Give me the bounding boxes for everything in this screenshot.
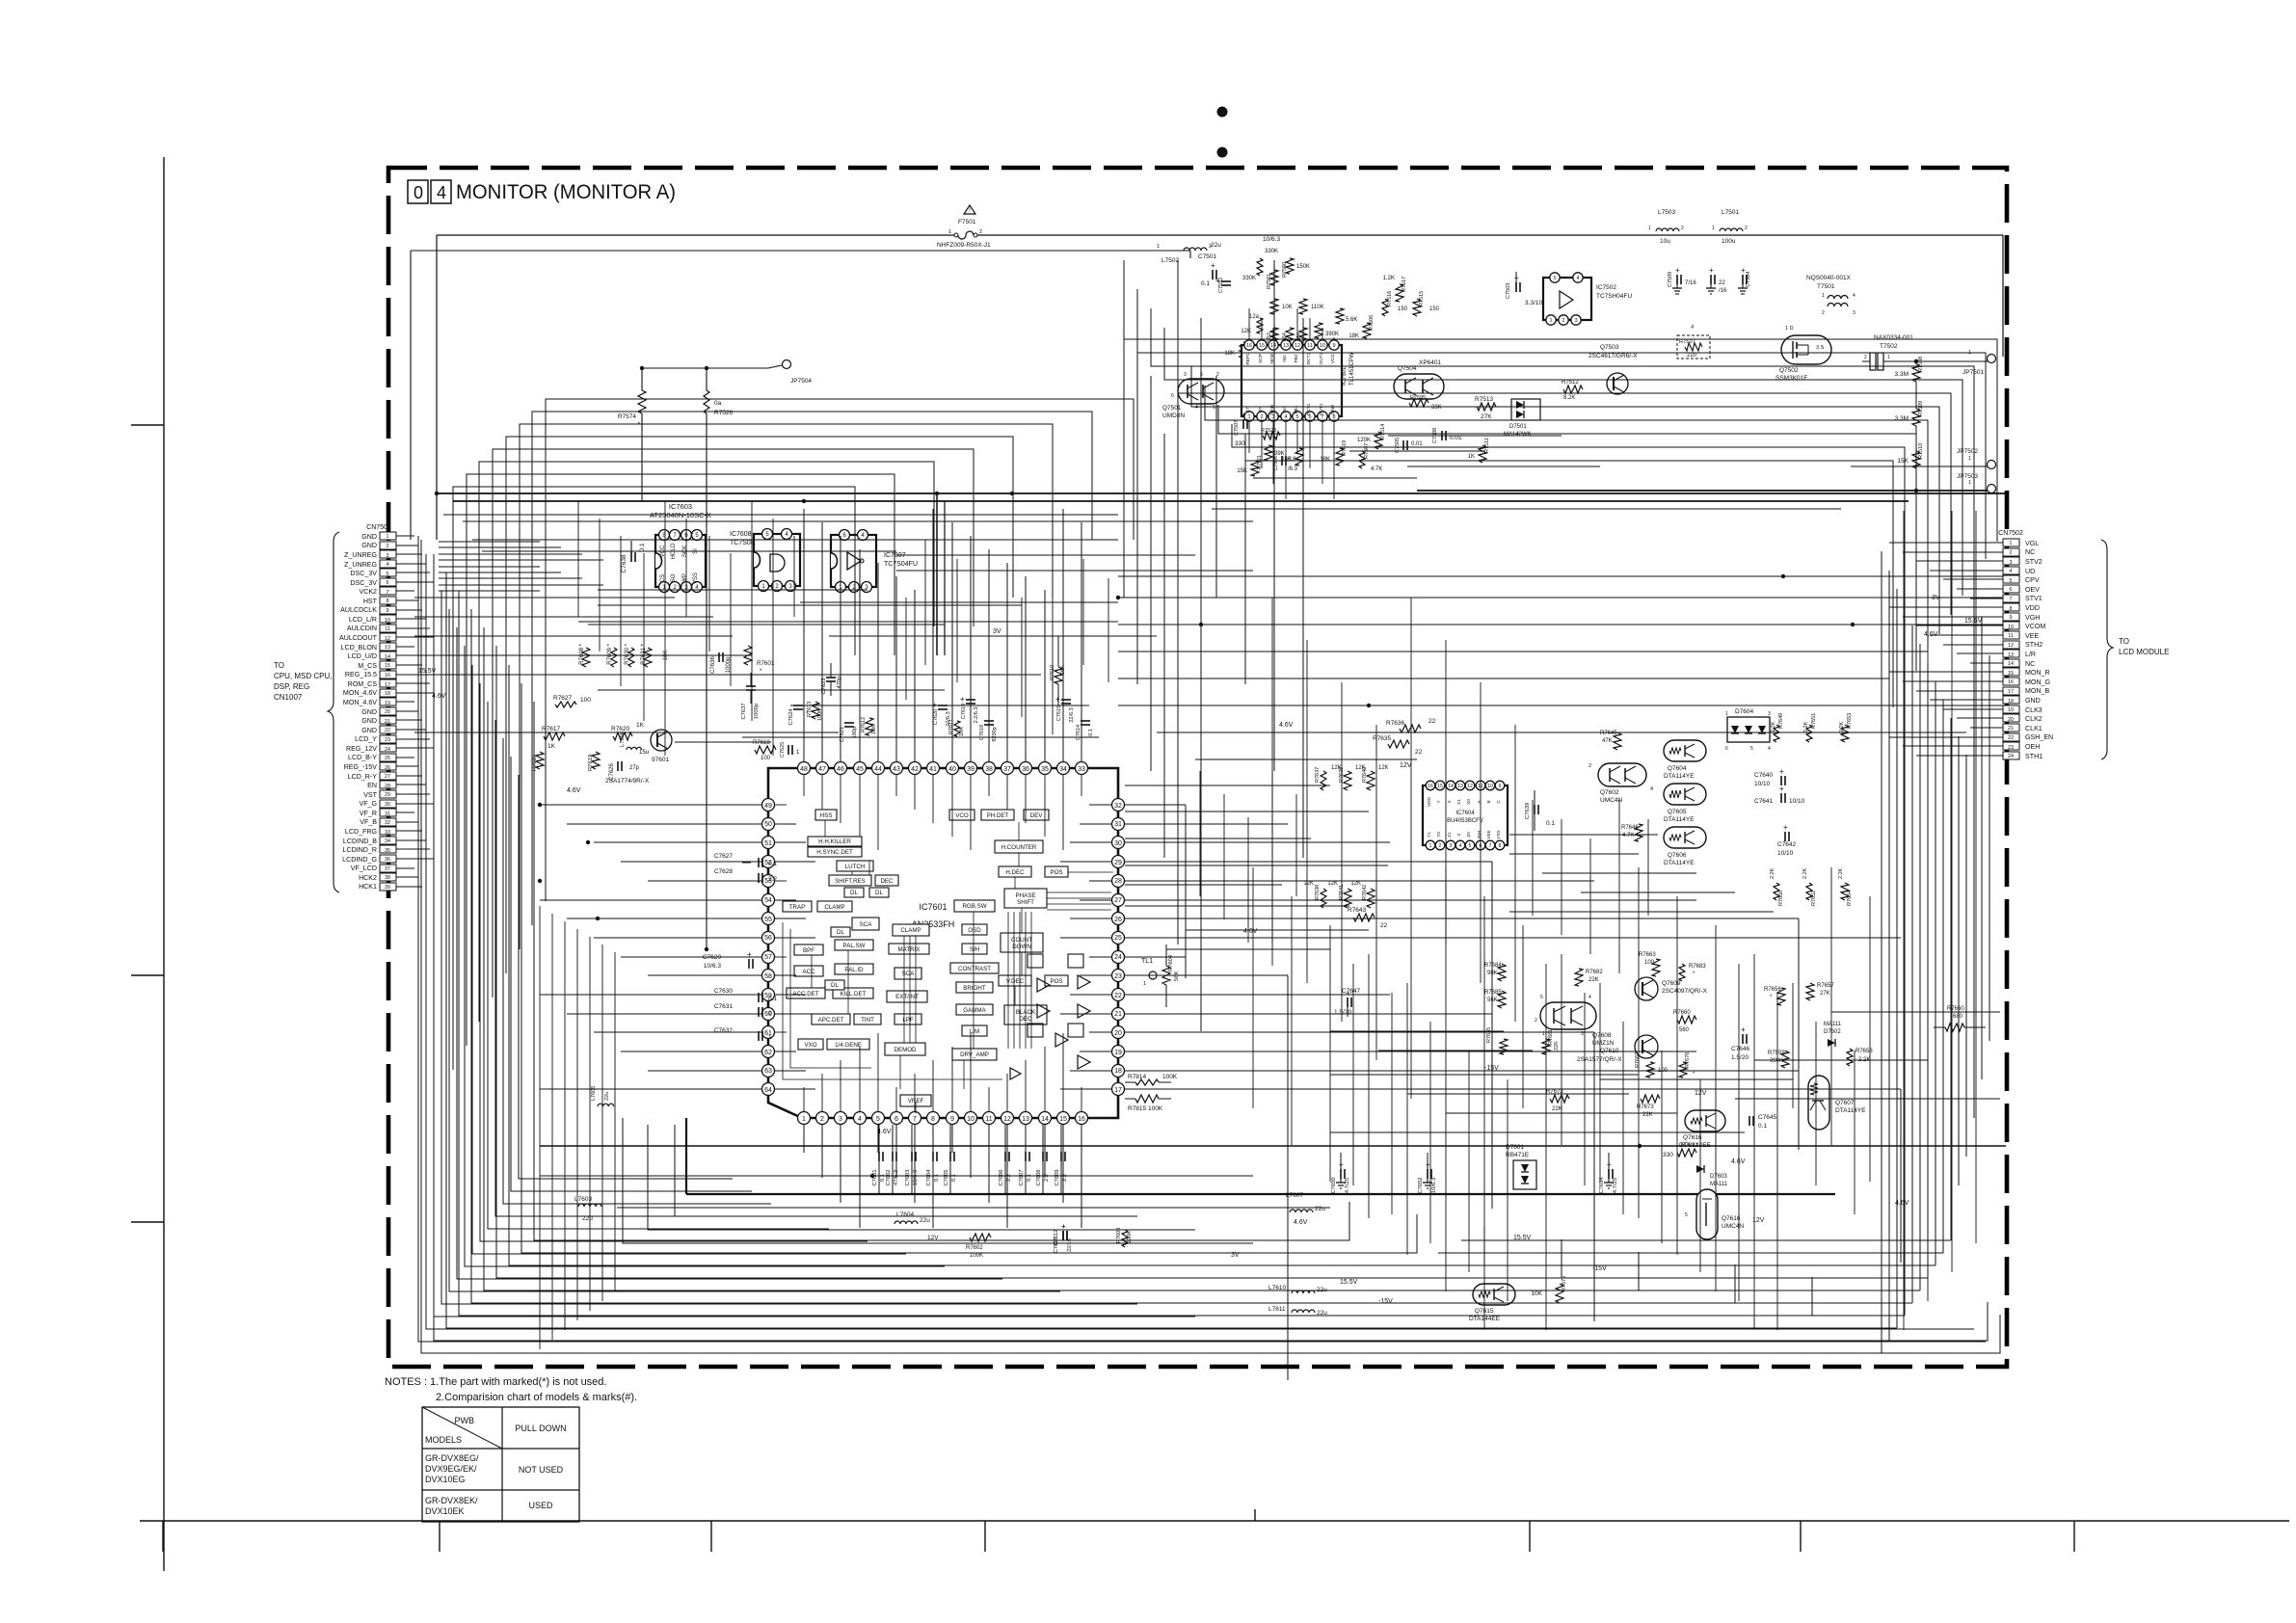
svg-text:0.1: 0.1 xyxy=(1088,729,1094,736)
svg-text:41: 41 xyxy=(929,766,937,773)
svg-text:8: 8 xyxy=(387,599,389,604)
svg-text:C7650: C7650 xyxy=(1331,1177,1337,1193)
svg-text:3V: 3V xyxy=(993,628,1001,635)
svg-text:C7602: C7602 xyxy=(886,1169,892,1185)
svg-text:22u: 22u xyxy=(1315,1206,1325,1212)
svg-text:C7614: C7614 xyxy=(1076,725,1081,740)
resistor R7613 xyxy=(812,702,819,719)
IC7601 internal amplifiers xyxy=(1037,978,1050,992)
wire middle rails right half xyxy=(1118,576,2003,759)
svg-text:150: 150 xyxy=(1398,306,1408,312)
capacitor C7510 xyxy=(1710,275,1712,284)
svg-text:23: 23 xyxy=(1114,973,1122,980)
op-amp IC7604 BU4053BCFV xyxy=(1423,785,1508,845)
svg-text:GR-DVX8EG/: GR-DVX8EG/ xyxy=(425,1453,479,1463)
svg-text:2: 2 xyxy=(1260,414,1263,420)
svg-text:C7604: C7604 xyxy=(926,1169,932,1186)
svg-text:CLAMP: CLAMP xyxy=(900,927,921,934)
svg-text:9: 9 xyxy=(2010,615,2013,621)
svg-text:Q7606: Q7606 xyxy=(1668,852,1687,859)
resistor R7563 110K xyxy=(1299,299,1307,314)
resistor R7616 xyxy=(536,752,544,769)
svg-text:C7605: C7605 xyxy=(944,1169,949,1185)
svg-text:SCA: SCA xyxy=(860,921,873,928)
transistor Q7615 DTA144EE xyxy=(1473,1284,1515,1305)
svg-text:OSD: OSD xyxy=(968,927,981,934)
svg-text:10K: 10K xyxy=(1531,1290,1542,1297)
transistor Q7607 DTA114YE xyxy=(1808,1076,1829,1130)
svg-text:C7645: C7645 xyxy=(1758,1114,1777,1121)
svg-text:R7609 *: R7609 * xyxy=(607,643,613,664)
svg-text:MON_R: MON_R xyxy=(2025,669,2050,677)
svg-text:VF_LCD: VF_LCD xyxy=(351,865,377,872)
svg-text:C7609: C7609 xyxy=(1055,1169,1060,1185)
svg-text:GR-DVX8EK/: GR-DVX8EK/ xyxy=(425,1496,478,1505)
resistor R7658 xyxy=(1847,1049,1853,1066)
svg-text:BLACK: BLACK xyxy=(1016,1009,1036,1016)
svg-text:55: 55 xyxy=(764,917,772,923)
svg-text:C7625: C7625 xyxy=(780,742,786,758)
svg-text:HST: HST xyxy=(363,598,378,605)
svg-text:R7652: R7652 xyxy=(1811,891,1817,906)
svg-text:BPF: BPF xyxy=(803,947,814,954)
svg-text:R7643: R7643 xyxy=(1348,907,1367,914)
svg-text:R7513: R7513 xyxy=(1475,396,1494,403)
svg-text:11: 11 xyxy=(385,626,390,632)
svg-text:47: 47 xyxy=(818,766,826,773)
svg-text:XP6401: XP6401 xyxy=(1419,359,1442,366)
resistor R7646 xyxy=(1635,824,1642,841)
svg-text:VF_R: VF_R xyxy=(360,810,377,817)
resistor R7511 xyxy=(1479,445,1486,463)
svg-text:12: 12 xyxy=(385,636,390,642)
svg-text:L7611: L7611 xyxy=(1268,1306,1286,1313)
svg-text:24: 24 xyxy=(1114,954,1122,961)
wire mid row rail xyxy=(742,736,1099,738)
svg-text:7: 7 xyxy=(2010,597,2013,602)
svg-text:C7639: C7639 xyxy=(1525,803,1531,819)
svg-text:6: 6 xyxy=(2010,587,2013,593)
svg-text:27: 27 xyxy=(385,774,390,780)
svg-text:110K: 110K xyxy=(1311,305,1324,310)
capacitor C7504 xyxy=(1742,275,1744,284)
svg-text:45: 45 xyxy=(856,766,864,773)
svg-text:0.01: 0.01 xyxy=(1411,441,1423,447)
svg-text:40: 40 xyxy=(948,766,956,773)
svg-text:4: 4 xyxy=(387,562,389,568)
svg-text:22K: 22K xyxy=(1589,977,1599,983)
capacitor C7628 xyxy=(758,873,760,883)
svg-text:11: 11 xyxy=(985,1116,992,1123)
svg-text:GND: GND xyxy=(361,708,377,716)
svg-text:LCD_B-Y: LCD_B-Y xyxy=(348,754,377,761)
svg-text:100: 100 xyxy=(761,756,771,761)
svg-text:R7660: R7660 xyxy=(1673,1010,1691,1016)
svg-text:/16: /16 xyxy=(1719,288,1727,294)
svg-text:6: 6 xyxy=(1725,746,1728,752)
svg-text:R7616: R7616 xyxy=(532,755,538,771)
svg-text:10/6.3: 10/6.3 xyxy=(704,963,721,970)
resistor R7566 18K xyxy=(1240,342,1247,358)
svg-text:29: 29 xyxy=(385,792,390,798)
resistor R7506 18K xyxy=(1363,323,1371,338)
svg-text:/6.3: /6.3 xyxy=(1288,466,1298,472)
svg-text:Q7607: Q7607 xyxy=(1835,1100,1855,1106)
svg-text:2: 2 xyxy=(1681,226,1684,231)
svg-text:27K: 27K xyxy=(1481,413,1492,420)
svg-text:JP7502: JP7502 xyxy=(1957,448,1978,455)
svg-text:32: 32 xyxy=(1114,803,1122,810)
resistor R7610 xyxy=(1055,667,1062,684)
svg-text:30: 30 xyxy=(1114,840,1122,847)
svg-text:LCD_L/R: LCD_L/R xyxy=(349,616,377,624)
capacitor C7506 xyxy=(1281,456,1283,466)
capacitor C7626 xyxy=(617,761,619,771)
svg-text:R7636: R7636 xyxy=(1386,720,1405,727)
extra rails xyxy=(443,514,1118,516)
svg-text:L/R: L/R xyxy=(2025,651,2036,658)
svg-text:10/10: 10/10 xyxy=(1777,850,1794,857)
svg-text:10/10: 10/10 xyxy=(1754,781,1771,787)
svg-text:1.2K: 1.2K xyxy=(1383,276,1395,281)
resistor R7642 xyxy=(1367,889,1375,908)
capacitor C7654 xyxy=(1608,1153,1610,1171)
svg-text:5: 5 xyxy=(1750,746,1753,752)
svg-text:AULCDIN: AULCDIN xyxy=(347,625,377,632)
svg-text:2.2/6.3: 2.2/6.3 xyxy=(974,707,979,724)
wire verticals center-right xyxy=(540,308,1841,1349)
resistor R7637 xyxy=(1321,771,1326,790)
jumper JP7501 xyxy=(1988,355,1996,363)
svg-text:DVX9EG/EK/: DVX9EG/EK/ xyxy=(425,1464,477,1474)
svg-text:CLK2: CLK2 xyxy=(2025,715,2042,723)
svg-text:0.1: 0.1 xyxy=(1758,1123,1767,1130)
capacitor C7630 xyxy=(758,993,760,1002)
svg-text:21: 21 xyxy=(1114,1011,1122,1018)
svg-text:4.7/25: 4.7/25 xyxy=(1345,1178,1350,1193)
capacitors C7601-C7609 under IC7601 xyxy=(878,1125,880,1154)
capacitor C7615 xyxy=(1061,699,1071,701)
resistor R7639 xyxy=(1344,771,1351,790)
resistor R7815 xyxy=(1135,1095,1159,1103)
CN7502 brace xyxy=(2101,540,2113,759)
svg-text:Q7608: Q7608 xyxy=(1592,1032,1612,1039)
transistor Q7504 XP6401 xyxy=(1394,374,1444,399)
svg-text:14: 14 xyxy=(1041,1116,1049,1123)
svg-text:M_CS: M_CS xyxy=(358,662,377,670)
svg-text:D7603: D7603 xyxy=(1710,1174,1727,1180)
svg-text:R7657: R7657 xyxy=(1817,983,1834,989)
svg-text:MATRIX: MATRIX xyxy=(898,946,921,953)
svg-text:49: 49 xyxy=(764,803,772,810)
svg-text:10: 10 xyxy=(385,618,390,624)
crop tick x2152 xyxy=(2073,1521,2075,1552)
svg-text:C7608: C7608 xyxy=(1036,1169,1042,1185)
ground C7509 xyxy=(1676,283,1678,288)
svg-text:R7561: R7561 xyxy=(1267,274,1272,289)
svg-text:4.6V: 4.6V xyxy=(1294,1219,1308,1226)
svg-text:3: 3 xyxy=(387,553,389,559)
svg-text:12K: 12K xyxy=(1378,765,1389,771)
resistor R7643 xyxy=(1353,914,1375,921)
svg-text:CPV: CPV xyxy=(2025,576,2040,584)
svg-text:R7508: R7508 xyxy=(1918,357,1924,372)
svg-text:R7658: R7658 xyxy=(1855,1049,1873,1054)
svg-text:26: 26 xyxy=(1114,917,1122,923)
wire staircase bundle top-left xyxy=(453,399,1134,1070)
IC7601 internal function blocks xyxy=(815,810,837,820)
inductor L7605 xyxy=(598,1104,614,1106)
svg-text:+: + xyxy=(1607,1160,1612,1169)
svg-text:2.2K: 2.2K xyxy=(1770,867,1775,879)
svg-text:C7503: C7503 xyxy=(1506,283,1511,299)
svg-text:C7615: C7615 xyxy=(1056,705,1062,721)
resistor R7650 xyxy=(1774,883,1779,900)
svg-text:MA111: MA111 xyxy=(1710,1182,1728,1187)
svg-text:22u: 22u xyxy=(1211,242,1221,249)
comparison table xyxy=(422,1407,579,1522)
resistor R7515 xyxy=(1413,299,1421,316)
svg-text:LCD_BLON: LCD_BLON xyxy=(341,644,377,652)
resistor R7652 xyxy=(1806,883,1812,900)
svg-text:3: 3 xyxy=(2010,560,2013,566)
svg-text:R7595: R7595 xyxy=(1410,395,1426,401)
svg-text:+: + xyxy=(1709,266,1714,275)
svg-text:JP7504: JP7504 xyxy=(790,378,812,385)
svg-text:1: 1 xyxy=(1822,293,1825,299)
resistor R7662 xyxy=(1646,1062,1654,1078)
svg-text:15.5V: 15.5V xyxy=(1340,1279,1358,1286)
svg-text:+: + xyxy=(1426,1160,1430,1169)
svg-text:1000p: 1000p xyxy=(754,704,760,719)
svg-text:330: 330 xyxy=(1663,1152,1673,1158)
svg-text:APC.DET: APC.DET xyxy=(818,1017,844,1024)
svg-text:12V: 12V xyxy=(1400,762,1412,769)
svg-text:DSC_3V: DSC_3V xyxy=(350,570,377,577)
capacitor C7618 xyxy=(984,720,994,722)
heavy ground rail under IC7601 xyxy=(686,1193,1835,1195)
svg-text:R7527: R7527 xyxy=(1679,339,1695,345)
svg-text:390K: 390K xyxy=(1770,1058,1783,1064)
svg-text:22: 22 xyxy=(1114,993,1122,999)
resistor R7649 xyxy=(1774,725,1779,742)
svg-text:L7606: L7606 xyxy=(620,732,626,747)
resistor R7651 xyxy=(1806,725,1812,742)
svg-text:R7608 *: R7608 * xyxy=(579,643,585,664)
svg-text:0.1: 0.1 xyxy=(1201,280,1210,287)
svg-text:51: 51 xyxy=(764,840,772,847)
resistor R7601 xyxy=(744,646,752,665)
svg-text:C7637: C7637 xyxy=(741,703,747,719)
transistor Q7608 UMZ1N xyxy=(1540,1002,1596,1029)
svg-text:10K: 10K xyxy=(871,725,877,734)
crop tick y441 xyxy=(131,424,164,426)
svg-text:24: 24 xyxy=(2008,754,2014,759)
svg-text:8.2K: 8.2K xyxy=(1563,395,1575,401)
svg-text:+: + xyxy=(1741,1025,1746,1034)
svg-text:11: 11 xyxy=(1307,343,1313,349)
svg-text:Z1: Z1 xyxy=(1447,832,1452,838)
svg-text:7: 7 xyxy=(1489,843,1492,849)
capacitor C7631 xyxy=(758,1007,760,1017)
svg-text:R7509: R7509 xyxy=(1918,401,1924,416)
wire lower right mesh xyxy=(439,260,2006,1330)
wire bottom nested bundle xyxy=(421,540,2000,1353)
svg-text:2.2K: 2.2K xyxy=(1838,867,1844,879)
svg-text:10/6.3: 10/6.3 xyxy=(913,1170,919,1185)
svg-text:PAL.SW: PAL.SW xyxy=(843,943,866,949)
capacitor C7623 xyxy=(826,677,836,678)
svg-text:10: 10 xyxy=(1320,343,1325,349)
svg-text:CPU, MSD CPU,: CPU, MSD CPU, xyxy=(274,672,332,680)
svg-text:35: 35 xyxy=(385,848,390,854)
svg-text:26: 26 xyxy=(385,765,390,771)
svg-text:4: 4 xyxy=(858,1116,862,1123)
svg-text:Z_UNREG: Z_UNREG xyxy=(344,551,377,559)
svg-text:5: 5 xyxy=(387,572,389,577)
svg-text:4.7/25: 4.7/25 xyxy=(1613,1178,1618,1193)
svg-text:TINT: TINT xyxy=(861,1017,874,1024)
svg-text:4: 4 xyxy=(1589,995,1591,1000)
svg-text:17: 17 xyxy=(2008,689,2014,695)
resistor R7509 xyxy=(1912,409,1920,426)
capacitor C7647 xyxy=(1347,998,1348,1007)
svg-text:1: 1 xyxy=(1213,405,1215,411)
svg-text:PAL.ID: PAL.ID xyxy=(844,967,864,973)
svg-text:+: + xyxy=(747,950,752,959)
capacitor C7503 xyxy=(1515,282,1517,292)
svg-text:8: 8 xyxy=(1499,843,1502,849)
resistor R7527 dashed xyxy=(1677,335,1710,359)
svg-text:58: 58 xyxy=(764,973,772,980)
svg-text:R7574: R7574 xyxy=(618,413,637,420)
svg-text:C7630: C7630 xyxy=(714,988,734,995)
svg-text:37: 37 xyxy=(1003,766,1011,773)
svg-text:+: + xyxy=(1783,823,1788,832)
wire top bus xyxy=(437,234,954,236)
resistor R7612 xyxy=(866,718,873,735)
svg-text:R7660: R7660 xyxy=(1947,1006,1964,1012)
svg-text:100u: 100u xyxy=(1722,238,1736,245)
svg-text:3 S: 3 S xyxy=(1816,345,1825,351)
svg-text:LCDIND_G: LCDIND_G xyxy=(342,856,377,864)
svg-text:0.1: 0.1 xyxy=(951,1174,957,1182)
title box 0 xyxy=(408,180,428,203)
svg-text:2SA1774/9R/-X: 2SA1774/9R/-X xyxy=(605,778,650,785)
svg-text:680: 680 xyxy=(1953,1014,1963,1020)
svg-text:Q7616: Q7616 xyxy=(1722,1215,1741,1222)
resistor R7505 5-6K xyxy=(1336,308,1344,324)
svg-text:10/6.3: 10/6.3 xyxy=(1263,236,1280,243)
capacitor C7629 xyxy=(748,959,750,969)
svg-text:0.1: 0.1 xyxy=(1546,820,1555,827)
svg-text:C7638: C7638 xyxy=(621,554,627,573)
resistor R7516 xyxy=(1382,299,1388,316)
svg-text:1: 1 xyxy=(1143,981,1146,987)
svg-text:R7618: R7618 xyxy=(753,740,770,746)
resistor R7565 390K xyxy=(1315,323,1322,338)
svg-text:R7682: R7682 xyxy=(1586,970,1603,975)
wire nested bundle top-right xyxy=(439,270,2005,707)
svg-text:5: 5 xyxy=(1685,1212,1688,1218)
svg-text:19: 19 xyxy=(2008,707,2014,713)
crop bottom line xyxy=(140,1520,2289,1522)
svg-text:L7503: L7503 xyxy=(1658,209,1675,216)
svg-text:GND: GND xyxy=(361,717,377,725)
svg-text:1.5/20: 1.5/20 xyxy=(1731,1054,1749,1061)
svg-text:15: 15 xyxy=(1259,343,1265,349)
resistor R7635 xyxy=(1388,740,1409,748)
svg-text:5: 5 xyxy=(1540,995,1543,1000)
svg-text:AULCDOUT: AULCDOUT xyxy=(339,634,378,642)
svg-text:H.H.KILLER: H.H.KILLER xyxy=(818,838,851,845)
fuse F7501 xyxy=(964,205,975,214)
transistor Q7602 UMC4N xyxy=(1598,763,1646,786)
svg-text:18K: 18K xyxy=(1348,333,1359,339)
svg-text:+: + xyxy=(1339,1160,1344,1169)
svg-text:C7504: C7504 xyxy=(1746,272,1751,287)
svg-text:4.7K: 4.7K xyxy=(1622,833,1634,838)
svg-text:25: 25 xyxy=(1114,935,1122,942)
svg-text:22K: 22K xyxy=(1554,1041,1560,1051)
svg-text:12: 12 xyxy=(1295,343,1300,349)
svg-text:C7636: C7636 xyxy=(710,656,716,674)
svg-text:22: 22 xyxy=(1415,749,1423,756)
svg-text:+: + xyxy=(1779,785,1784,793)
svg-text:12: 12 xyxy=(2008,643,2014,649)
svg-text:100: 100 xyxy=(580,697,591,704)
svg-text:0.1: 0.1 xyxy=(1027,1174,1032,1182)
svg-text:DVX10EG: DVX10EG xyxy=(425,1475,466,1484)
svg-text:IN2: IN2 xyxy=(1282,355,1288,362)
svg-text:MONITOR (MONITOR A): MONITOR (MONITOR A) xyxy=(456,181,676,203)
svg-text:CLK3: CLK3 xyxy=(2025,706,2042,714)
svg-text:20: 20 xyxy=(1114,1030,1122,1037)
svg-text:OUT2: OUT2 xyxy=(1319,352,1324,364)
svg-text:4.7K: 4.7K xyxy=(1371,466,1382,472)
svg-text:1: 1 xyxy=(802,1116,806,1123)
transistor Q7610 xyxy=(1635,1035,1658,1058)
svg-text:+: + xyxy=(1211,261,1215,270)
svg-text:AT25040N-10SC-X: AT25040N-10SC-X xyxy=(650,511,711,519)
crop tick y1012 xyxy=(131,974,164,976)
title box 4 xyxy=(431,180,451,203)
svg-text:17: 17 xyxy=(1114,1087,1122,1094)
resistor R7675 10K xyxy=(1556,1284,1563,1303)
svg-text:GAMMA: GAMMA xyxy=(963,1007,986,1014)
svg-text:15: 15 xyxy=(1437,784,1443,789)
capacitor C7650 xyxy=(1340,1153,1342,1171)
svg-text:REG_12V: REG_12V xyxy=(346,745,377,753)
capacitor C7627 xyxy=(758,858,760,867)
svg-text:POS: POS xyxy=(1050,869,1062,876)
svg-text:4: 4 xyxy=(437,183,446,202)
svg-text:C7631: C7631 xyxy=(714,1003,734,1010)
svg-text:R7602: R7602 xyxy=(966,1245,983,1251)
svg-text:SHIFT: SHIFT xyxy=(1017,899,1034,906)
svg-text:D7601: D7601 xyxy=(1506,1144,1525,1151)
svg-text:3.3/10: 3.3/10 xyxy=(1525,300,1542,306)
svg-text:PHASE: PHASE xyxy=(1016,892,1036,899)
svg-text:4: 4 xyxy=(1768,746,1771,752)
svg-text:F7501: F7501 xyxy=(958,219,976,226)
svg-text:R7512: R7512 xyxy=(1562,380,1579,386)
resistor R7526 xyxy=(704,390,709,413)
crop tick x1868 xyxy=(1800,1521,1802,1552)
svg-text:MON_B: MON_B xyxy=(2025,687,2049,695)
transistor Q7601 xyxy=(651,730,672,751)
svg-text:IC7608: IC7608 xyxy=(730,531,752,538)
